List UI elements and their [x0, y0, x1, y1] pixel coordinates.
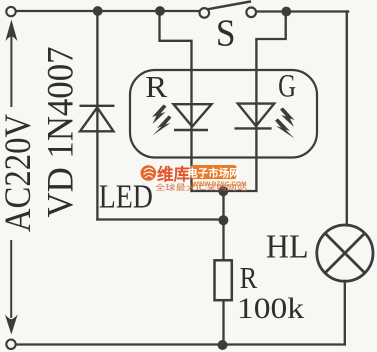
switch S blade	[208, 1, 251, 9]
lamp HL symbol	[317, 225, 373, 281]
AC source arrow down head	[5, 315, 18, 335]
svg-text:R: R	[240, 261, 258, 295]
wire lamp to bottom rail	[344, 281, 346, 345]
wire bottom rail	[16, 343, 345, 345]
node bottom rail at resistor	[218, 340, 228, 350]
LED package outline box	[130, 70, 317, 158]
svg-text:维库: 维库	[157, 164, 191, 184]
wire top rail left	[16, 10, 199, 12]
svg-text:LED: LED	[99, 177, 153, 215]
terminal bottom-left	[6, 340, 15, 349]
AC source arrow up head	[5, 20, 17, 42]
svg-text:R: R	[145, 70, 168, 104]
wire diode branch vertical	[96, 11, 98, 220]
svg-text:100k: 100k	[237, 292, 304, 325]
node B diode junction	[218, 215, 228, 225]
wire top rail right	[257, 10, 348, 12]
node junction top at LED R branch	[155, 6, 165, 16]
svg-text:HL: HL	[266, 229, 309, 266]
switch S contact left	[200, 8, 210, 18]
svg-text:电子市场网: 电子市场网	[187, 167, 240, 180]
LED R symbol	[174, 104, 212, 130]
node junction top at LED G branch	[281, 7, 291, 17]
watermark logo circle	[141, 165, 157, 181]
LED R emission arrows	[152, 105, 172, 136]
wire right drop to lamp	[347, 12, 348, 226]
svg-text:AC220V: AC220V	[0, 114, 38, 232]
watermark orange box	[191, 165, 237, 179]
wire staircase to LED R	[160, 11, 192, 191]
LED G symbol	[235, 104, 275, 129]
resistor R body	[215, 260, 232, 300]
wire staircase to LED G	[256, 12, 285, 192]
svg-text:S: S	[216, 11, 236, 53]
wire node A to node B	[222, 191, 224, 220]
wire LED cathode connector	[192, 190, 257, 192]
svg-text:G: G	[278, 68, 296, 104]
terminal top-left	[6, 7, 15, 16]
AC source arrow up shaft	[10, 36, 12, 107]
svg-text:VD 1N4007: VD 1N4007	[40, 47, 81, 218]
node A LED cathodes	[218, 186, 228, 196]
LED G emission arrows	[275, 108, 295, 139]
wire node B to resistor and bottom rail	[222, 220, 224, 345]
switch S contact right	[246, 8, 256, 18]
wire diode branch horizontal to node B	[97, 218, 223, 220]
diode VD symbol	[80, 106, 115, 132]
node junction top at diode branch	[93, 6, 103, 16]
svg-text:全球最大IC采购网站: 全球最大IC采购网站	[155, 182, 248, 192]
AC source arrow down shaft	[10, 240, 12, 318]
